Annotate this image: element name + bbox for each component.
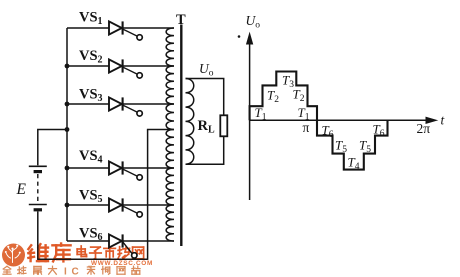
resistor RL [220,115,227,136]
thyristor VS5 [109,198,142,217]
label T [176,12,186,28]
wire battery top branch [38,130,67,166]
y-axis Uo [247,34,253,201]
watermark dzsc logo and text [2,244,153,277]
wire VS4 cathode to tap [122,167,174,169]
label Uo axis [246,13,261,31]
node bus-VS3 [65,102,70,107]
thyristor VS1 [109,21,142,40]
label Uo secondary [199,61,214,79]
label T5 step [335,138,347,156]
label VS4 [79,148,103,166]
battery E cell2 long plate [29,204,47,206]
label RL [198,118,215,136]
label T2 step [267,88,279,106]
thyristor VS4 [109,161,142,180]
label pi [303,120,310,135]
svg-text:C: C [72,267,79,277]
label T6 step [322,122,334,140]
svg-text:WWW.DZSC.COM: WWW.DZSC.COM [91,260,153,267]
label VS2 [79,48,103,66]
label VS1 [79,10,103,28]
wire battery dashed middle [37,174,39,202]
node bus-VS4 [65,166,70,171]
label 2pi [417,121,431,136]
battery E cell2 short plate [34,208,42,211]
wire VS1 anode line [67,27,109,29]
label VS6 [79,226,103,244]
wire VS1 cathode to tap [122,27,174,29]
thyristor VS3 [109,97,142,116]
thyristor VS2 [109,59,142,78]
node bus-battery [65,127,70,132]
label T2 step [293,87,305,105]
battery E cell1 long plate [29,165,47,167]
label T1 step [255,105,267,123]
wire left anode bus [66,28,68,241]
wire VS4 anode line [67,167,109,169]
label T4 step [348,155,360,173]
svg-text:E: E [16,181,27,198]
wire center-tap riser [147,130,149,260]
wire VS6 cathode to tap [122,240,174,242]
thyristor VS6 [109,234,137,258]
waveform Uo staircase [250,72,388,170]
node bus-VS2 [65,64,70,69]
wire VS5 cathode to tap [122,204,174,206]
node bus-VS5 [65,203,70,208]
svg-text:2π: 2π [417,121,431,136]
wire secondary top [186,79,224,116]
svg-text:I: I [64,267,67,277]
x-axis t [250,117,437,123]
wire secondary bottom [186,136,224,164]
wire VS2 anode line [67,65,109,67]
transformer primary winding [166,28,174,241]
wire VS5 anode line [67,204,109,206]
label T3 step [282,73,294,91]
transformer secondary winding [186,79,194,165]
wire VS3 cathode to tap [122,103,174,105]
label t axis [441,113,446,128]
wire VS6 anode line [67,240,109,242]
label T5 step [359,138,371,156]
wire center tap [147,129,174,131]
wire bottom rail [37,258,148,260]
wire VS2 cathode to tap [122,65,174,67]
battery E cell1 short plate [34,170,42,173]
transformer core [180,25,182,247]
label E [16,181,27,198]
wire VS3 anode line [67,103,109,105]
label T1 step [298,105,310,123]
label VS5 [79,188,103,206]
label VS3 [79,87,103,105]
wire battery negative to bottom rail [37,212,39,260]
stray dot [238,35,241,38]
label T6 step [373,122,385,140]
